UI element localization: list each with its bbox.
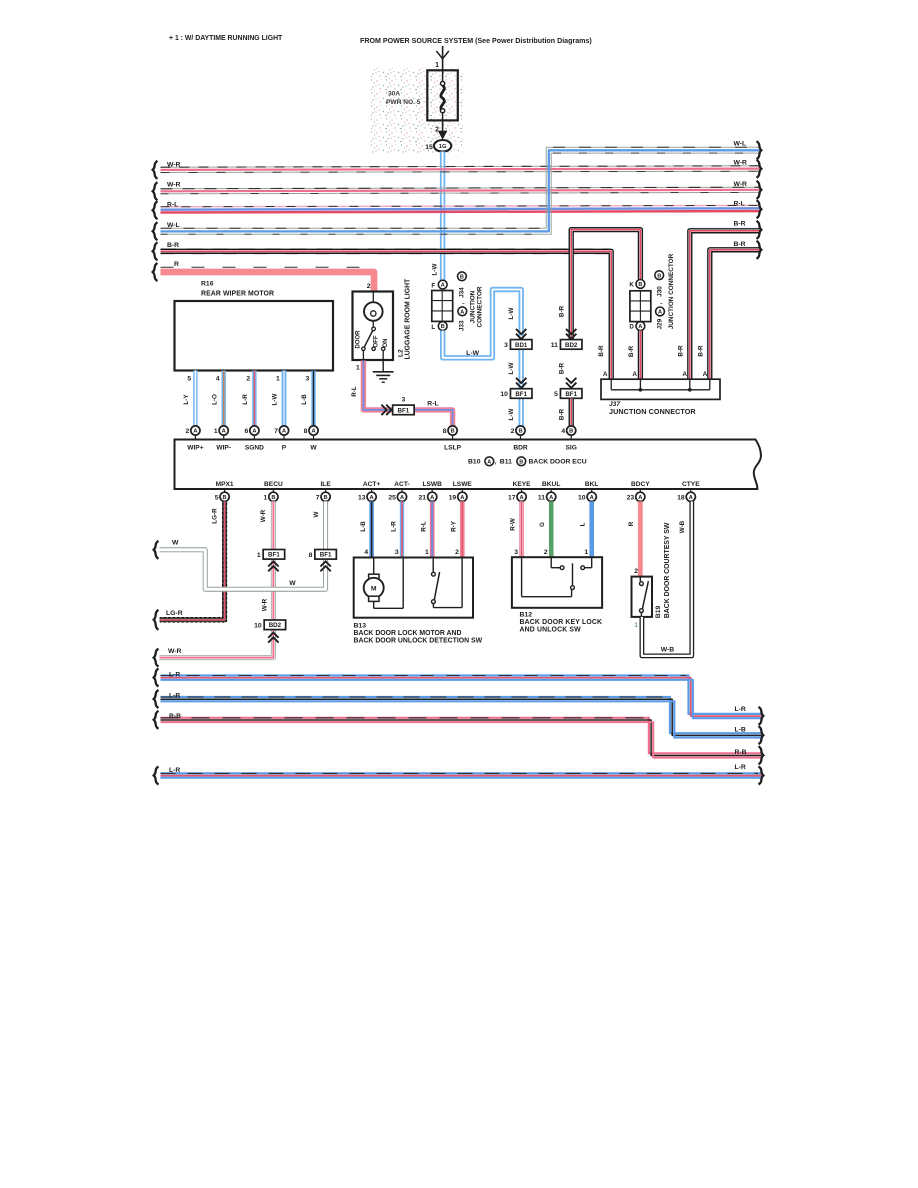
svg-text:L-O: L-O — [211, 394, 218, 405]
svg-text:25: 25 — [388, 494, 396, 501]
svg-text:A: A — [441, 283, 445, 289]
svg-text:1: 1 — [584, 549, 588, 556]
svg-text:SIG: SIG — [566, 444, 577, 451]
svg-text:,: , — [657, 302, 664, 304]
svg-text:B: B — [519, 459, 523, 465]
brace right bus W-L top — [757, 141, 762, 159]
svg-text:B-R: B-R — [698, 345, 705, 357]
brace right bus W-R 2 — [757, 181, 762, 199]
pin 3 label B13 — [395, 549, 399, 556]
svg-text:R-Y: R-Y — [451, 520, 458, 532]
svg-text:B-R: B-R — [558, 305, 565, 317]
label L-Y rotated — [183, 394, 190, 405]
title FROM POWER SOURCE SYSTEM — [360, 37, 592, 45]
svg-text:BD1: BD1 — [515, 342, 528, 349]
label W-R left bus 2 — [167, 181, 181, 188]
svg-text:5: 5 — [187, 376, 191, 383]
svg-text:L-R: L-R — [390, 521, 397, 532]
svg-text:WIP+: WIP+ — [187, 444, 203, 451]
label L-R left lower 4 — [169, 767, 180, 774]
label J29 J30 junction connector — [655, 253, 675, 329]
brace left bus W-R 1 — [153, 161, 158, 179]
label B12 BACK DOOR KEY LOCK — [520, 611, 603, 633]
junction connector J33/J34 pin L — [431, 322, 447, 331]
label W-R right bus 2 — [734, 181, 748, 188]
svg-text:R-B: R-B — [735, 749, 747, 756]
svg-text:ILE: ILE — [320, 481, 331, 488]
wire L from ECU to B12 pin 1 — [589, 501, 594, 557]
note +1 W/ DAYTIME RUNNING LIGHT — [169, 35, 283, 42]
back door courtesy switch B19 box — [632, 577, 653, 617]
chevron into BF1 on L-W wire — [516, 378, 526, 388]
svg-text:1: 1 — [264, 494, 268, 501]
svg-text:W: W — [310, 444, 317, 451]
svg-text:W-R: W-R — [261, 598, 268, 611]
wire L-O wiper motor pin 4 — [221, 371, 225, 426]
ECU bottom connector 11(A) BKUL — [538, 489, 556, 501]
wire W-B from B19 pin 1 up to CTYE — [642, 501, 692, 656]
wire W from ILE down through BF1 to left harness — [160, 501, 326, 589]
label W-R rotated between BF1 and BD2 — [261, 598, 268, 611]
svg-text:A: A — [430, 495, 434, 501]
svg-text:R-L: R-L — [427, 400, 438, 407]
ECU signal label ACT+ — [363, 481, 381, 488]
label B-R between BD2 and BF1 on SIG wire — [558, 362, 565, 374]
bus wire L-R lower 1 — [161, 676, 762, 719]
svg-text:R-L: R-L — [421, 521, 428, 532]
brace left bus W-L 4 — [153, 222, 158, 240]
svg-text:B: B — [638, 282, 642, 288]
connector 3 BF1 on R-L wire — [393, 397, 415, 415]
svg-text:5: 5 — [215, 494, 219, 501]
lock motor M inside B13 — [364, 558, 404, 609]
svg-text:A: A — [682, 371, 687, 378]
svg-text:L-W: L-W — [272, 394, 279, 406]
svg-text:FROM POWER SOURCE SYSTEM (See: FROM POWER SOURCE SYSTEM (See Power Dist… — [360, 37, 592, 45]
svg-text:BACK DOOR ECU: BACK DOOR ECU — [529, 459, 587, 466]
svg-text:23: 23 — [627, 494, 635, 501]
svg-text:A: A — [282, 429, 286, 435]
connector 11 BD2 on B-R wire — [551, 340, 582, 350]
svg-text:L-W: L-W — [508, 409, 515, 421]
bus wire B-R right lower to brace — [710, 250, 760, 381]
svg-text:B-R: B-R — [558, 362, 565, 374]
svg-text:LSLP: LSLP — [444, 444, 461, 451]
label B-R right lower — [734, 241, 746, 248]
label B-R on J37 third wire — [678, 345, 685, 357]
label W-B on bottom run — [661, 646, 675, 653]
label R-L rotated on luggage drop — [351, 386, 358, 397]
key lock switch contacts inside B12 — [522, 557, 592, 597]
svg-text:W-R: W-R — [734, 160, 748, 167]
svg-text:B-R: B-R — [734, 241, 746, 248]
pin 1 label of fuse — [435, 62, 439, 69]
ECU top connector 8(B) LSLP — [443, 426, 457, 440]
svg-text:A: A — [252, 429, 256, 435]
ECU bottom connector 25(A) ACT- — [388, 489, 406, 501]
svg-text:2: 2 — [186, 428, 190, 435]
svg-text:1: 1 — [257, 552, 261, 559]
svg-text:R: R — [174, 261, 179, 268]
svg-text:B: B — [657, 273, 661, 279]
wire fuse pin 2 to connector 1G — [438, 120, 448, 139]
label B-R left bus 5 — [167, 242, 179, 249]
svg-text:A: A — [311, 429, 315, 435]
label W-R at left harness bottom — [168, 648, 182, 655]
label B-R on J37 left wire — [598, 345, 605, 357]
label L-W rotated — [272, 394, 279, 406]
svg-text:W: W — [172, 539, 179, 546]
ECU signal label LSWE — [453, 481, 473, 488]
brace left R-B lower 3 — [154, 711, 159, 729]
ECU signal label SGND — [245, 444, 264, 451]
svg-text:L-B: L-B — [360, 521, 367, 532]
svg-text:BD2: BD2 — [565, 342, 578, 349]
label L rotated — [580, 522, 587, 526]
bus wire W-L with jog up at x=549 — [161, 147, 760, 234]
svg-text:B: B — [223, 495, 227, 501]
wire R-Y from ECU to B13 pin 2 — [460, 501, 465, 557]
fuse 30A PWR NO. 5 — [427, 70, 458, 120]
label R-B left lower 3 — [169, 713, 181, 720]
svg-text:REAR WIPER MOTOR: REAR WIPER MOTOR — [201, 291, 274, 298]
svg-text:,: , — [494, 459, 496, 466]
connector 3 BD1 on L-W wire — [504, 340, 532, 350]
svg-text:L-R: L-R — [242, 394, 249, 405]
svg-text:1: 1 — [425, 549, 429, 556]
svg-text:W-R: W-R — [734, 181, 748, 188]
pin 5 label wiper — [187, 376, 191, 383]
ECU bottom connector 7(B) ILE — [316, 489, 330, 501]
svg-text:JUNCTION: JUNCTION — [469, 290, 476, 323]
brace left LG-R — [154, 610, 159, 630]
labels DOOR OFF ON — [356, 330, 389, 349]
svg-text:3: 3 — [514, 549, 518, 556]
junction connector J29/J30 pin K — [629, 280, 644, 289]
brace right L-B lower 2 — [759, 726, 764, 744]
svg-text:BACK DOOR LOCK MOTOR AND: BACK DOOR LOCK MOTOR AND — [354, 630, 462, 637]
svg-text:J34: J34 — [459, 287, 466, 298]
svg-text:ACT-: ACT- — [394, 481, 409, 488]
svg-text:A: A — [520, 495, 524, 501]
svg-text:4: 4 — [561, 428, 565, 435]
svg-text:8: 8 — [304, 428, 308, 435]
dashes on B-R left bus — [161, 249, 610, 253]
brace left L-R lower 4 — [154, 767, 159, 785]
junction connector J29/J30 box — [630, 291, 651, 322]
svg-text:L-Y: L-Y — [183, 394, 190, 405]
pin 3 label wiper — [306, 376, 310, 383]
connector 1 BF1 on BECU wire — [257, 550, 285, 560]
brace right bus R-L 3 — [757, 200, 762, 218]
svg-text:LG-R: LG-R — [166, 610, 183, 617]
wire L-B wiper motor pin 3 — [311, 371, 315, 426]
pin 4 label B13 — [364, 549, 368, 556]
svg-text:L-R: L-R — [735, 706, 746, 713]
fuse value label 30A PWR NO. 5 — [386, 91, 421, 106]
svg-text:P: P — [282, 444, 287, 451]
ECU bottom connector 17(A) KEYE — [508, 489, 526, 501]
label L-W on fuse drop wire — [432, 264, 439, 276]
svg-text:A: A — [590, 495, 594, 501]
ECU signal label W — [310, 444, 317, 451]
svg-text:ACT+: ACT+ — [363, 481, 381, 488]
svg-text:13: 13 — [358, 494, 366, 501]
ECU signal label SIG — [566, 444, 577, 451]
pin labels A on J37 — [603, 371, 708, 378]
svg-text:L-W: L-W — [508, 363, 515, 375]
label R left bus 6 — [174, 261, 179, 268]
svg-text:A: A — [638, 324, 642, 330]
ECU signal label BECU — [264, 481, 283, 488]
svg-text:2: 2 — [367, 283, 371, 290]
svg-text:2: 2 — [511, 428, 515, 435]
svg-text:3: 3 — [402, 397, 406, 404]
label W rotated on ILE wire — [313, 511, 320, 517]
label R-L left bus 3 — [167, 202, 178, 209]
brace left L-R lower 1 — [154, 669, 159, 687]
label R rotated on BDCY wire — [628, 521, 635, 526]
connector 15 (1G) — [425, 140, 451, 152]
svg-text:A: A — [460, 495, 464, 501]
svg-text:BF1: BF1 — [320, 552, 332, 559]
bus wire R-B lower 3 — [161, 718, 762, 758]
svg-text:2: 2 — [246, 376, 250, 383]
label L-R rotated — [242, 394, 249, 405]
svg-text:7: 7 — [316, 494, 320, 501]
svg-text:,: , — [459, 302, 466, 304]
svg-text:L-B: L-B — [301, 394, 308, 405]
svg-text:W-B: W-B — [661, 646, 675, 653]
svg-text:W-R: W-R — [167, 162, 181, 169]
bus wire W-R (top 1) — [161, 166, 760, 173]
bus wire R-L (top 3) — [161, 205, 760, 212]
svg-text:3: 3 — [306, 376, 310, 383]
chevron below BD2 on BECU wire — [268, 633, 278, 643]
svg-text:BF1: BF1 — [268, 552, 280, 559]
svg-text:LSWE: LSWE — [453, 481, 473, 488]
wire G from ECU to B12 pin 2 — [549, 501, 554, 557]
label G rotated — [539, 522, 546, 527]
svg-text:CTYE: CTYE — [682, 481, 700, 488]
brace right R-B lower 3 — [759, 746, 764, 764]
ECU signal label P — [282, 444, 287, 451]
ECU signal label ACT- — [394, 481, 409, 488]
label J33 J34 junction connector — [458, 272, 484, 331]
label W-L left bus 4 — [167, 222, 180, 229]
ground below luggage room light — [373, 360, 394, 382]
svg-text:L-W: L-W — [508, 308, 515, 320]
label B-R right upper — [734, 220, 746, 227]
pin 1 label B12 — [584, 549, 588, 556]
svg-text:BDR: BDR — [513, 444, 528, 451]
svg-text:18: 18 — [677, 494, 685, 501]
svg-text:J30: J30 — [657, 286, 664, 297]
svg-text:BD2: BD2 — [269, 622, 282, 629]
svg-text:1: 1 — [356, 364, 360, 371]
unlock detection switch inside B13 — [432, 558, 463, 608]
brace left bus R-L 3 — [153, 201, 158, 219]
svg-text:D: D — [629, 324, 634, 331]
label L-B left lower 2 — [169, 692, 180, 699]
connector 10 BD2 on BECU wire — [254, 620, 286, 630]
bulb of luggage room light — [364, 292, 383, 321]
luggage room light L2 box — [353, 292, 394, 361]
ECU bottom connector 1(B) BECU — [264, 489, 278, 501]
pin 1 label luggage room light — [356, 364, 360, 371]
brace left W — [154, 541, 159, 559]
svg-text:BACK DOOR COURTESY SW: BACK DOOR COURTESY SW — [664, 522, 671, 618]
bus wire B-R right upper to brace — [690, 231, 760, 381]
label R-L rotated — [421, 521, 428, 532]
svg-text:G: G — [539, 522, 546, 527]
svg-text:A: A — [549, 495, 553, 501]
label B-R under J29/J30 — [628, 345, 635, 357]
svg-text:B: B — [324, 495, 328, 501]
brace left bus W-R 2 — [153, 182, 158, 200]
label L-O rotated — [211, 394, 218, 405]
svg-text:BKUL: BKUL — [542, 481, 560, 488]
wire from power source into fuse pin 1 — [442, 46, 444, 70]
wire L-Y wiper motor pin 5 — [193, 371, 197, 426]
ECU bottom connector 5(B) MPX1 — [215, 489, 229, 501]
label L-W below BF1 — [508, 409, 515, 421]
svg-text:6: 6 — [245, 428, 249, 435]
ECU signal label LSWB — [422, 481, 442, 488]
svg-text:B10: B10 — [468, 459, 481, 466]
chevron below BF1 on BECU wire — [268, 561, 278, 571]
ECU bottom connector 13(A) ACT+ — [358, 489, 376, 501]
ECU top connector 8(A) W — [304, 426, 318, 440]
svg-text:MPX1: MPX1 — [216, 481, 234, 488]
label L-W above BD1 — [508, 308, 515, 320]
ECU signal label WIP- — [216, 444, 231, 451]
wire L-R wiper motor pin 2 — [252, 371, 256, 426]
label R-B right lower 3 — [735, 749, 747, 756]
label W-L right top — [734, 141, 747, 148]
svg-text:J33: J33 — [459, 320, 466, 331]
brace left L-B lower 2 — [154, 690, 159, 708]
wire R from BDCY to B19 pin 2 — [638, 501, 643, 576]
pin 1 label B19 — [634, 622, 638, 629]
svg-text:A: A — [638, 495, 642, 501]
svg-text:3: 3 — [395, 549, 399, 556]
ECU bottom connector 10(A) BKL — [578, 489, 596, 501]
chevron below BF1 on ILE wire — [320, 561, 330, 571]
svg-text:ON: ON — [383, 339, 389, 348]
chevron into BD2 on B-R wire — [566, 329, 576, 339]
svg-text:1: 1 — [634, 622, 638, 629]
connector 8 BF1 on ILE wire — [309, 550, 337, 560]
label R-W rotated — [510, 518, 517, 531]
pin 1 label wiper — [276, 376, 280, 383]
svg-text:A: A — [689, 495, 693, 501]
label L-B rotated — [301, 394, 308, 405]
svg-text:15: 15 — [425, 144, 433, 151]
svg-text:WIP-: WIP- — [216, 444, 231, 451]
ECU top connector 2(B) BDR — [511, 426, 525, 440]
svg-text:B: B — [518, 429, 522, 435]
svg-text:L-B: L-B — [735, 727, 746, 734]
label LG-R rotated on MPX1 wire — [211, 508, 218, 524]
ECU top connector 1(A) WIP- — [214, 426, 228, 440]
svg-text:R-L: R-L — [167, 202, 178, 209]
svg-text:R16: R16 — [201, 280, 214, 287]
svg-text:+ 1 : W/ DAYTIME RUNNING LIGHT: + 1 : W/ DAYTIME RUNNING LIGHT — [169, 35, 283, 42]
svg-text:B: B — [271, 495, 275, 501]
label B10 (A) B11 (B) BACK DOOR ECU — [468, 457, 587, 466]
svg-text:PWR NO. 5: PWR NO. 5 — [386, 99, 421, 106]
ECU signal label KEYE — [513, 481, 532, 488]
svg-text:A: A — [222, 429, 226, 435]
brace right B-R upper — [757, 221, 762, 239]
svg-text:3: 3 — [504, 342, 508, 349]
label L-B rotated — [360, 521, 367, 532]
pin 1 label B13 — [425, 549, 429, 556]
svg-text:JUNCTION CONNECTOR: JUNCTION CONNECTOR — [609, 407, 696, 416]
svg-text:R-L: R-L — [351, 386, 358, 397]
svg-text:BF1: BF1 — [515, 391, 527, 398]
label W on horizontal run — [289, 580, 296, 587]
arrowhead from power source — [436, 51, 448, 59]
brace right L-R lower 4 — [759, 767, 764, 785]
label L-B right lower 2 — [735, 727, 746, 734]
svg-text:BF1: BF1 — [565, 391, 577, 398]
brace right bus W-R 1 — [757, 160, 762, 178]
label B-R on J37 fourth wire — [698, 345, 705, 357]
svg-text:BACK DOOR UNLOCK DETECTION SW: BACK DOOR UNLOCK DETECTION SW — [354, 638, 483, 645]
svg-text:1: 1 — [435, 62, 439, 69]
chevron into BD1 on L-W wire — [516, 329, 526, 339]
chevron into BF1 on B-R wire — [566, 378, 576, 388]
svg-text:A: A — [632, 371, 637, 378]
connector 10 BF1 on L-W wire — [500, 389, 532, 399]
svg-text:8: 8 — [443, 428, 447, 435]
svg-text:A: A — [400, 495, 404, 501]
label L-W between BD1 and BF1 — [508, 363, 515, 375]
svg-text:BDCY: BDCY — [631, 481, 650, 488]
label W-R left bus 1 — [167, 162, 181, 169]
ECU bottom connector 21(A) LSWB — [419, 489, 437, 501]
bus wire W-R (top 2) — [161, 187, 760, 194]
wire R-L luggage light to LSLP — [363, 361, 452, 427]
back door lock motor B13 box — [354, 558, 473, 618]
junction dot J37 b — [688, 388, 692, 392]
svg-text:4: 4 — [216, 376, 220, 383]
bus wire B-R (left) turning down to J37 junction connector — [161, 251, 612, 381]
svg-text:W-R: W-R — [260, 509, 267, 522]
wire B-R from BF1 to SIG connector — [569, 399, 574, 427]
label LG-R at left harness — [166, 610, 183, 617]
svg-text:10: 10 — [254, 622, 262, 629]
label L-R right lower 4 — [735, 764, 746, 771]
svg-text:BACK DOOR KEY LOCK: BACK DOOR KEY LOCK — [520, 619, 603, 626]
svg-text:W-R: W-R — [167, 181, 181, 188]
svg-text:2: 2 — [634, 568, 638, 575]
svg-text:B: B — [569, 429, 573, 435]
svg-text:2: 2 — [455, 549, 459, 556]
label R-L right bus 3 — [734, 201, 745, 208]
junction connector J37 box — [601, 379, 720, 399]
brace right L-R lower 1 — [759, 707, 764, 725]
wire L-W from 1G down to junction connector J33/J34 pin F — [440, 152, 445, 281]
pin 3 label B12 — [514, 549, 518, 556]
svg-text:B13: B13 — [354, 623, 367, 630]
svg-text:B: B — [451, 429, 455, 435]
junction connector J33/J34 box — [432, 291, 453, 322]
svg-text:R-B: R-B — [169, 713, 181, 720]
svg-text:L: L — [580, 522, 587, 526]
